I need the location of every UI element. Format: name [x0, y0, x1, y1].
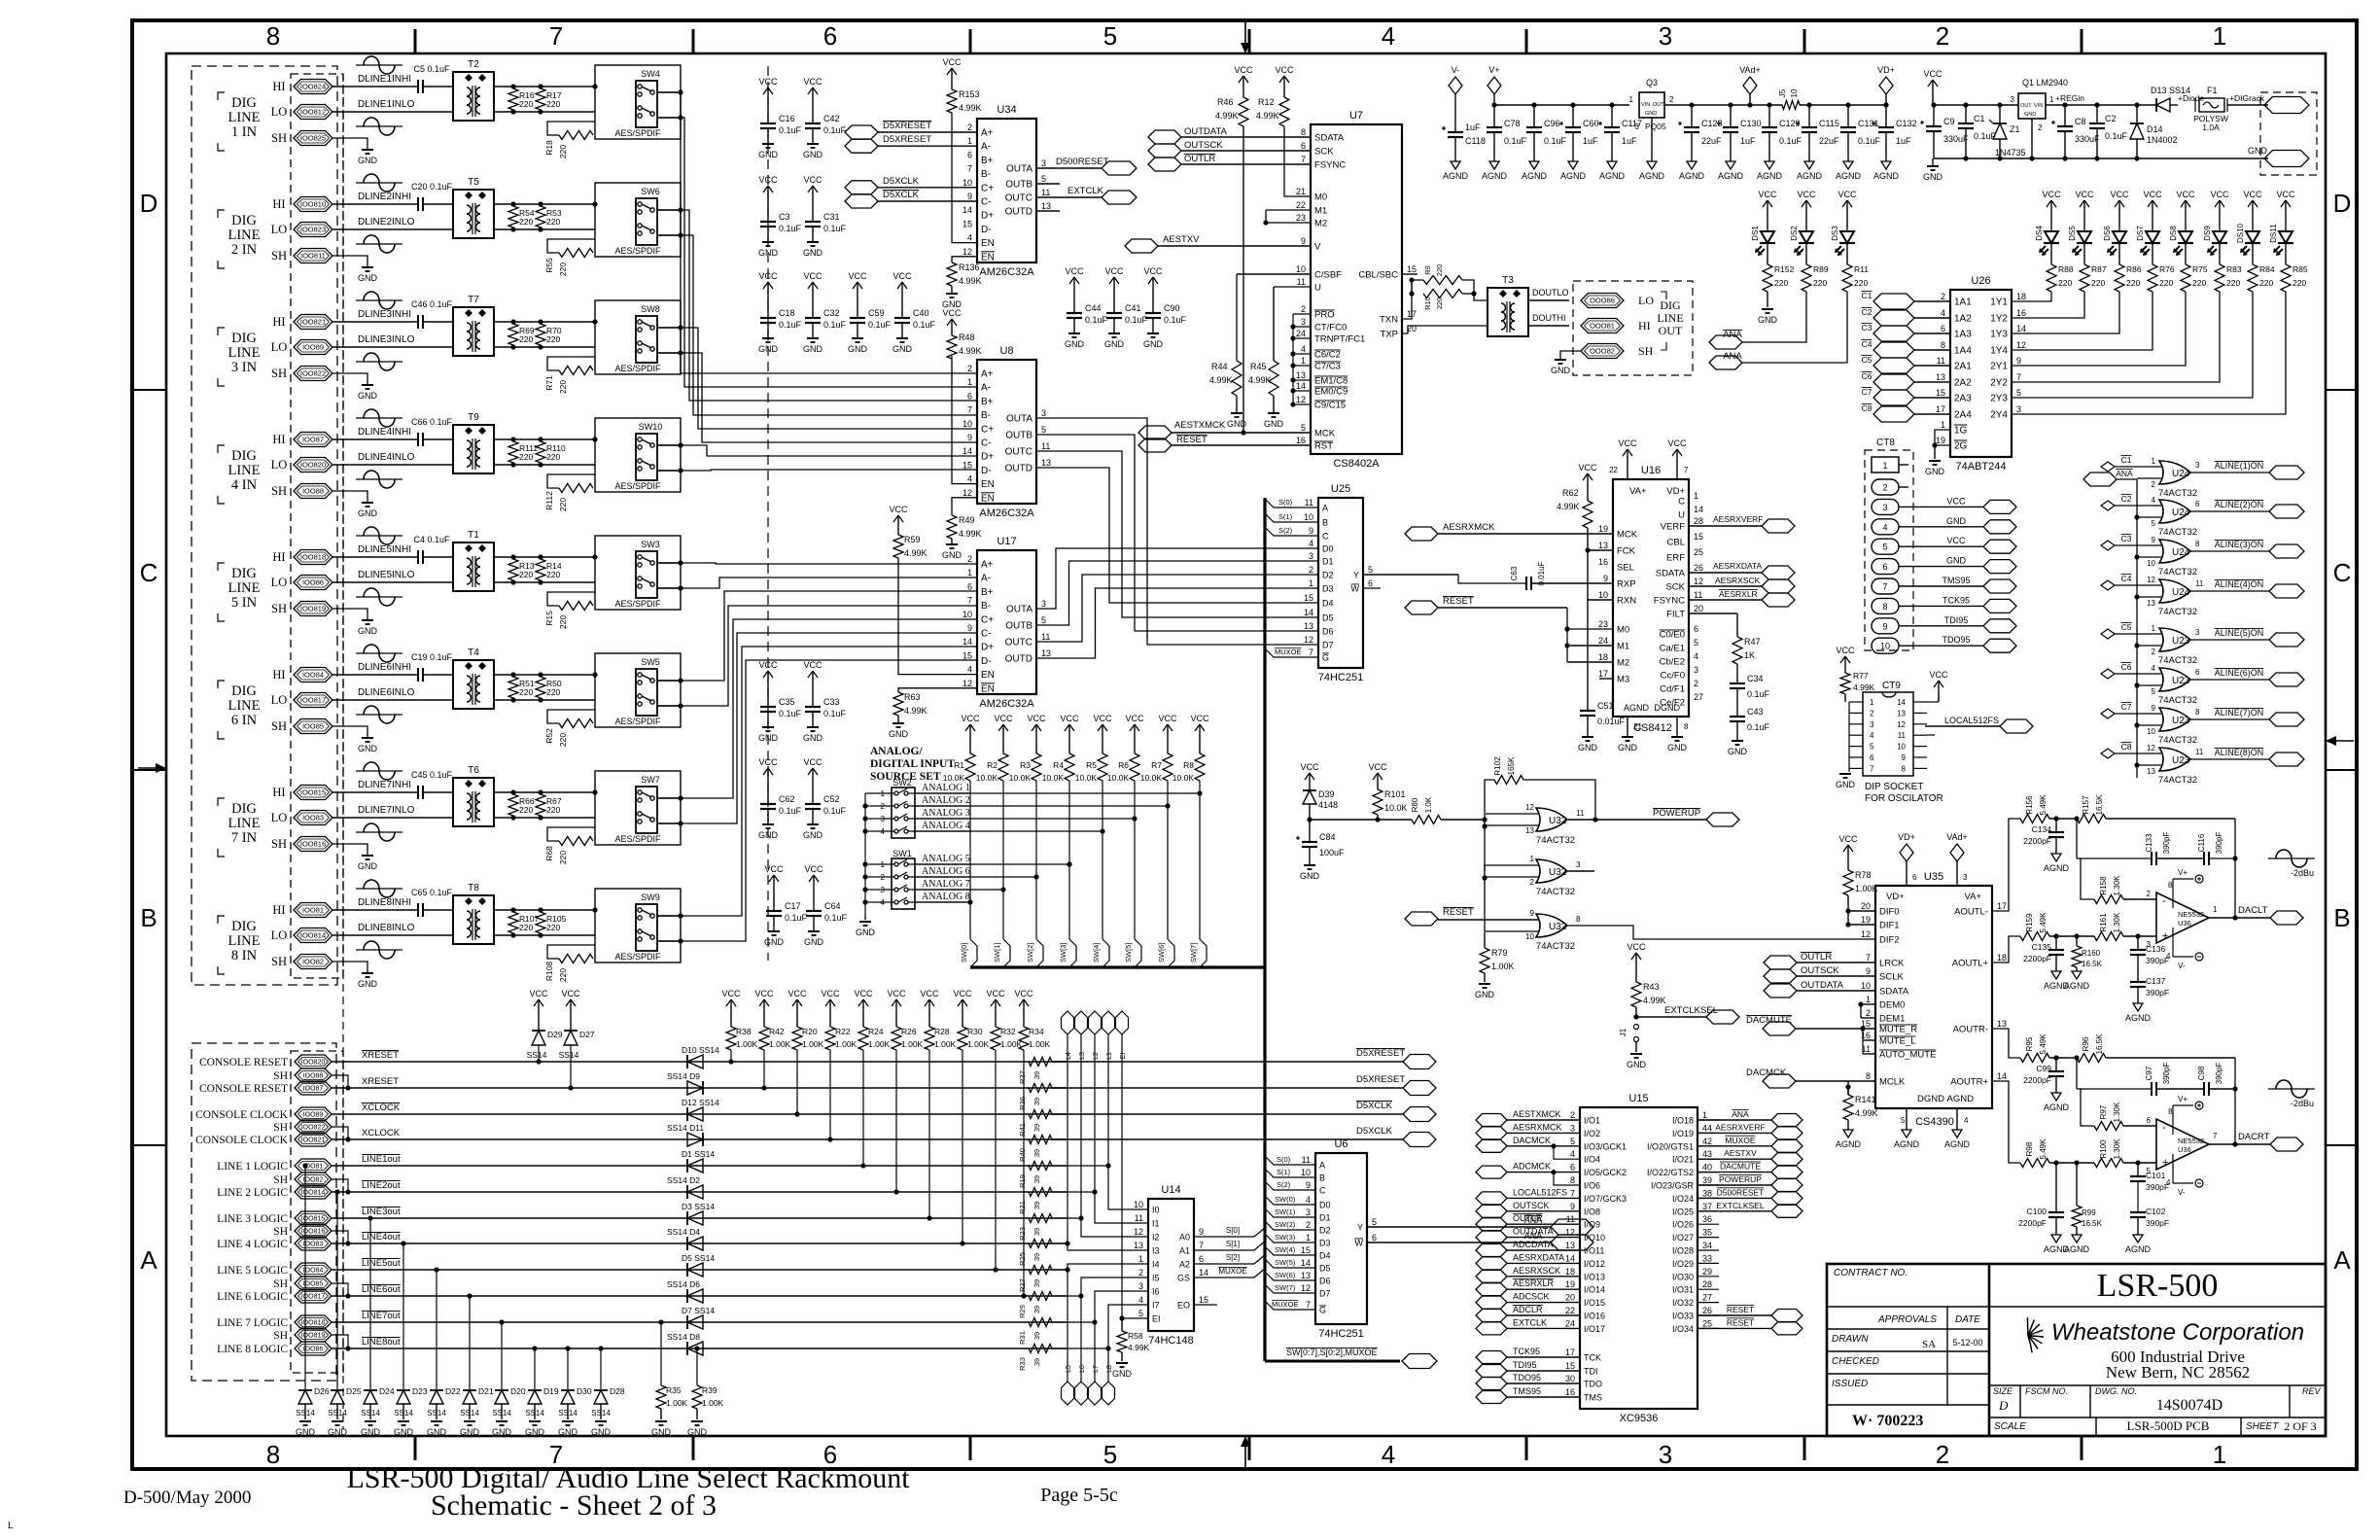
svg-text:VCC: VCC	[821, 989, 840, 998]
capacitor C43 0.1uF	[1736, 688, 1738, 717]
svg-text:2Y4: 2Y4	[1990, 410, 2008, 421]
svg-text:2: 2	[1694, 679, 1698, 688]
svg-text:VCC: VCC	[764, 864, 784, 874]
svg-text:0.1uF: 0.1uF	[779, 709, 802, 718]
svg-text:VCC: VCC	[1027, 714, 1046, 723]
op-amp V- supply	[2172, 927, 2174, 957]
svg-text:VCC: VCC	[1104, 266, 1124, 276]
svg-text:1: 1	[2049, 95, 2054, 104]
svg-text:I/O24: I/O24	[1672, 1194, 1694, 1204]
resistor R141 4.99K	[1847, 1087, 1849, 1095]
svg-text:10.0K: 10.0K	[1042, 773, 1065, 783]
svg-text:DLINE6INLO: DLINE6INLO	[358, 687, 415, 698]
input tag C4	[2101, 580, 2115, 590]
svg-text:R35: R35	[666, 1385, 682, 1395]
svg-text:3: 3	[1309, 551, 1313, 561]
wire transformer to switch SW7	[494, 791, 595, 793]
svg-text:AGND: AGND	[1624, 703, 1650, 713]
svg-text:4: 4	[967, 665, 972, 675]
svg-text:39: 39	[1032, 1175, 1041, 1183]
svg-text:TDI95: TDI95	[1513, 1360, 1537, 1370]
sine symbol	[356, 64, 402, 66]
svg-text:1: 1	[2213, 905, 2218, 914]
grid row ticks	[132, 389, 166, 391]
resistor R105 220	[536, 912, 545, 933]
svg-text:74ACT32: 74ACT32	[2158, 607, 2197, 617]
svg-text:FOR OSCILATOR: FOR OSCILATOR	[1865, 793, 1943, 804]
connector tag IOO88 (SH)	[294, 484, 332, 499]
svg-text:1uF: 1uF	[1583, 136, 1598, 146]
svg-text:OUT: OUT	[1653, 102, 1664, 108]
wire transformer to switch SW10	[494, 438, 595, 440]
wire SH to ground	[332, 844, 367, 856]
svg-text:390pF: 390pF	[2162, 1063, 2171, 1085]
svg-text:V-: V-	[2178, 962, 2186, 970]
svg-text:C64: C64	[824, 901, 841, 911]
svg-text:DIF0: DIF0	[1879, 907, 1900, 918]
svg-text:8: 8	[1941, 340, 1945, 350]
svg-text:TMS95: TMS95	[1513, 1386, 1541, 1396]
svg-text:C98: C98	[2197, 1066, 2206, 1080]
LED DS11	[2285, 200, 2287, 214]
svg-text:LINE: LINE	[227, 580, 260, 596]
svg-text:4.99K: 4.99K	[1128, 1343, 1150, 1352]
input tag C8	[2101, 749, 2115, 758]
resistor R101 10.0K	[1377, 773, 1379, 787]
svg-text:17: 17	[1997, 901, 2007, 911]
wire R to switch	[547, 827, 595, 841]
svg-text:VCC: VCC	[1836, 646, 1855, 655]
svg-text:HI: HI	[272, 550, 285, 564]
svg-text:AGND: AGND	[1836, 171, 1862, 181]
CT9 right pin wires	[1927, 701, 1939, 703]
resistor R111 220	[508, 441, 518, 463]
svg-text:VCC: VCC	[1275, 65, 1294, 75]
svg-text:VCC: VCC	[1093, 714, 1112, 723]
svg-text:8: 8	[2168, 1107, 2173, 1116]
svg-text:ALINE(3)ON: ALINE(3)ON	[2215, 540, 2264, 549]
svg-text:L: L	[8, 1521, 14, 1531]
OR gate U23 74ACT32	[2159, 668, 2190, 691]
svg-text:SW[2]: SW[2]	[1026, 943, 1034, 962]
wire R59 to U17 EN	[898, 558, 977, 675]
svg-text:M1: M1	[1314, 206, 1327, 217]
svg-text:0.1uF: 0.1uF	[824, 913, 848, 923]
svg-text:R71: R71	[544, 375, 554, 391]
svg-text:1.00K: 1.00K	[769, 1039, 791, 1049]
ground for DIG LINE OUT shield	[1560, 351, 1581, 360]
svg-text:74ACT32: 74ACT32	[2158, 735, 2197, 746]
svg-text:VCC: VCC	[1618, 438, 1637, 448]
svg-text:T7: T7	[468, 295, 479, 305]
svg-text:IOO83: IOO83	[302, 814, 324, 822]
svg-text:IOO89: IOO89	[303, 1112, 324, 1119]
output tag ALINE(1)ON	[2190, 472, 2270, 473]
svg-text:LRCK: LRCK	[1879, 959, 1905, 969]
svg-text:New Bern, NC 28562: New Bern, NC 28562	[2106, 1363, 2250, 1382]
svg-text:LINE 5 LOGIC: LINE 5 LOGIC	[217, 1265, 288, 1277]
svg-text:74ACT32: 74ACT32	[2158, 695, 2197, 706]
svg-text:AOUTL-: AOUTL-	[1954, 907, 1988, 918]
connector tag IOO87 (HI)	[294, 433, 332, 447]
resistor R48 4.99K for U8	[951, 319, 953, 332]
svg-text:GND: GND	[1143, 339, 1164, 349]
resistor R152 220	[1767, 247, 1768, 264]
svg-text:A-: A-	[981, 142, 991, 153]
svg-text:C66 0.1uF: C66 0.1uF	[411, 417, 453, 427]
svg-text:R36: R36	[1018, 1097, 1027, 1110]
svg-text:220: 220	[2226, 278, 2240, 288]
resistor R108 220	[559, 955, 593, 963]
svg-text:R59: R59	[904, 535, 921, 544]
svg-text:DEM1: DEM1	[1879, 1014, 1905, 1025]
svg-text:SW[0]: SW[0]	[960, 943, 968, 962]
svg-text:S(0): S(0)	[1277, 1155, 1291, 1164]
svg-text:9: 9	[1902, 753, 1907, 762]
LED DS4	[2050, 200, 2052, 214]
svg-text:EN: EN	[981, 670, 995, 681]
capacitor C33 0.1uF with VCC and GND	[812, 671, 814, 684]
svg-text:R12: R12	[1258, 97, 1275, 107]
switch SW4 AES/SPDIF	[595, 65, 681, 139]
capacitor C135 2200pF	[2055, 936, 2057, 950]
svg-text:VCC: VCC	[2276, 190, 2295, 199]
output tag AESRXVERF	[1689, 525, 1762, 527]
svg-text:16.5K: 16.5K	[2095, 794, 2104, 816]
svg-text:-2dBu: -2dBu	[2291, 868, 2314, 878]
pull-up resistors R1-R8 10.0K	[969, 724, 971, 738]
svg-text:0.1uF: 0.1uF	[1858, 136, 1881, 146]
svg-text:13: 13	[1041, 458, 1051, 468]
CT8 pin 7	[1872, 578, 1899, 594]
svg-text:VCC: VCC	[1837, 190, 1857, 199]
svg-text:-: -	[2162, 895, 2166, 907]
svg-text:38: 38	[1702, 1188, 1712, 1198]
svg-text:C52: C52	[823, 794, 840, 804]
wire LO to transformer	[332, 699, 453, 701]
svg-text:S[0]: S[0]	[1226, 1226, 1240, 1235]
svg-text:74ACT32: 74ACT32	[2158, 567, 2197, 577]
svg-text:CONSOLE RESET: CONSOLE RESET	[199, 1083, 288, 1095]
svg-text:SW[3]: SW[3]	[1059, 943, 1067, 962]
svg-text:SW(7): SW(7)	[1275, 1283, 1296, 1292]
sine symbol -2dBu R	[2268, 1088, 2315, 1090]
svg-text:FSYNC: FSYNC	[1314, 160, 1346, 171]
svg-text:VCC: VCC	[2176, 190, 2195, 199]
svg-text:3: 3	[2147, 940, 2152, 949]
capacitor C17 0.1uF with VCC and GND	[773, 875, 775, 889]
svg-text:V-: V-	[2178, 1188, 2186, 1197]
svg-text:MUTE_R: MUTE_R	[1879, 1025, 1917, 1035]
svg-text:AGND: AGND	[1836, 1139, 1862, 1149]
svg-text:B-: B-	[981, 169, 991, 180]
svg-text:DACMCK: DACMCK	[1513, 1136, 1551, 1145]
capacitor C115 22uF	[1806, 102, 1811, 107]
svg-text:R100: R100	[2099, 1139, 2108, 1159]
svg-text:NE5532: NE5532	[2178, 910, 2204, 919]
svg-text:39: 39	[1032, 1253, 1041, 1261]
svg-text:9: 9	[1882, 621, 1887, 631]
svg-text:14: 14	[1296, 381, 1306, 391]
diode D8 SS14	[687, 1342, 703, 1355]
svg-text:0.1uF: 0.1uF	[1747, 722, 1770, 732]
svg-text:39: 39	[1032, 1202, 1041, 1209]
svg-text:L8: L8	[1106, 1365, 1113, 1373]
svg-text:LINE: LINE	[227, 463, 260, 478]
svg-text:LINE: LINE	[227, 933, 260, 949]
gate input 2 from ANA bus	[2137, 724, 2161, 726]
svg-text:TMS: TMS	[1584, 1393, 1602, 1403]
svg-text:8: 8	[2168, 881, 2173, 890]
svg-text:U24: U24	[2172, 507, 2190, 518]
svg-text:18: 18	[2016, 292, 2026, 301]
capacitor C78 0.1uF	[1493, 105, 1495, 127]
svg-text:R160: R160	[2082, 949, 2101, 958]
svg-text:12: 12	[1694, 577, 1703, 586]
svg-text:1: 1	[1941, 420, 1945, 430]
resistor R52 220	[559, 719, 593, 728]
svg-text:C97: C97	[2145, 1066, 2153, 1080]
capacitor C133 390pF	[2151, 852, 2152, 865]
svg-text:39: 39	[1032, 1228, 1041, 1236]
svg-text:AOUTR-: AOUTR-	[1953, 1025, 1988, 1035]
svg-text:SH: SH	[271, 955, 287, 968]
svg-text:OUTD: OUTD	[1005, 207, 1032, 218]
svg-text:3: 3	[1576, 860, 1581, 869]
svg-text:VCC: VCC	[1158, 714, 1177, 723]
svg-text:D5XCLK: D5XCLK	[1356, 1101, 1393, 1111]
wire R to switch	[547, 710, 595, 723]
svg-text:HI: HI	[272, 433, 285, 446]
svg-text:220: 220	[558, 262, 568, 276]
switch output wires	[657, 915, 681, 917]
S bus stubs into U6	[1265, 1156, 1315, 1165]
svg-text:RXP: RXP	[1617, 579, 1636, 590]
svg-text:1: 1	[2213, 1440, 2226, 1469]
svg-text:GND: GND	[1728, 747, 1748, 756]
svg-text:HI: HI	[272, 315, 285, 329]
gate input 2 from ANA bus	[2137, 556, 2161, 558]
svg-text:VCC: VCC	[986, 989, 1005, 998]
resistor R37 39	[1029, 1058, 1052, 1067]
svg-text:R156: R156	[2025, 795, 2034, 815]
svg-text:DOUTHI: DOUTHI	[1532, 313, 1566, 323]
U25 W stub	[1363, 587, 1381, 589]
svg-text:U23: U23	[2172, 676, 2190, 686]
svg-text:I/O30: I/O30	[1672, 1272, 1694, 1281]
svg-text:R84: R84	[2259, 264, 2275, 274]
capacitor C100 2200pF	[2055, 1163, 2057, 1212]
svg-text:VCC: VCC	[1929, 670, 1948, 680]
svg-text:R22: R22	[835, 1027, 851, 1036]
svg-text:I/O8: I/O8	[1584, 1207, 1600, 1216]
OR gate U32b 74ACT32	[1484, 826, 1486, 871]
svg-text:R68: R68	[544, 846, 554, 861]
svg-text:15: 15	[1301, 1245, 1311, 1255]
svg-text:74ACT32: 74ACT32	[2158, 775, 2197, 786]
svg-text:3: 3	[2195, 461, 2200, 470]
svg-text:0.1uF: 0.1uF	[1544, 136, 1567, 146]
resistor R110 220	[536, 441, 545, 463]
svg-text:D14: D14	[2147, 124, 2163, 134]
svg-text:R32: R32	[1000, 1027, 1016, 1036]
SW bus thick line	[970, 965, 1265, 968]
svg-text:7: 7	[1301, 155, 1306, 164]
svg-text:CONSOLE RESET: CONSOLE RESET	[199, 1057, 288, 1068]
svg-text:C133: C133	[2145, 833, 2153, 853]
gate input 2 from ANA bus	[2137, 477, 2161, 479]
svg-text:16.5K: 16.5K	[2095, 1033, 2104, 1055]
resistor R84 220	[2252, 247, 2254, 264]
feedback vertical	[2234, 819, 2236, 918]
connector tag IOO819 (SH)	[294, 602, 332, 616]
svg-text:22uF: 22uF	[1701, 136, 1722, 146]
svg-text:C+: C+	[981, 183, 994, 193]
sine symbol	[356, 478, 402, 480]
svg-text:1.30K: 1.30K	[2113, 912, 2121, 933]
svg-text:390pF: 390pF	[2146, 988, 2169, 997]
connector tag IOO89 (LO)	[294, 340, 332, 355]
svg-text:5: 5	[2147, 1167, 2152, 1175]
ground DS1	[1767, 292, 1768, 307]
svg-text:VA+: VA+	[1964, 892, 1981, 902]
svg-text:EN: EN	[981, 493, 995, 504]
resistor R158 1.30K	[2094, 895, 2123, 904]
svg-text:EN: EN	[981, 683, 995, 694]
op-amp U36 NE5532	[2156, 892, 2209, 943]
wire SH to ground	[332, 962, 367, 973]
svg-text:CONSOLE CLOCK: CONSOLE CLOCK	[195, 1109, 289, 1121]
svg-text:D2: D2	[1322, 571, 1334, 580]
svg-text:R6: R6	[1118, 760, 1129, 770]
svg-text:13: 13	[1301, 1271, 1311, 1280]
svg-text:CBL: CBL	[1667, 538, 1685, 548]
svg-text:I/O7/GCK3: I/O7/GCK3	[1584, 1194, 1627, 1204]
svg-text:3: 3	[1041, 158, 1046, 168]
input tag AESTXV	[1125, 239, 1158, 253]
svg-text:4: 4	[2166, 1178, 2171, 1187]
U14 EO stub	[1194, 1304, 1217, 1306]
svg-text:10: 10	[2147, 559, 2155, 568]
svg-text:S(2): S(2)	[1277, 1180, 1291, 1189]
svg-text:7: 7	[1870, 764, 1874, 773]
svg-text:16: 16	[1296, 436, 1306, 445]
svg-text:OUTB: OUTB	[1005, 180, 1032, 191]
resistor R83 220	[2219, 247, 2221, 264]
svg-text:SEL: SEL	[1617, 563, 1634, 574]
wire SH to ground	[332, 726, 367, 738]
transformer T2	[453, 72, 494, 121]
svg-text:19: 19	[1861, 915, 1871, 925]
vertical tags above (to U14 upper inputs)	[1102, 1011, 1115, 1034]
svg-text:IOO88: IOO88	[303, 1073, 324, 1080]
CT8 wire pin3 VCC	[1899, 506, 1983, 507]
connector tag IOO814 (LO)	[294, 928, 332, 943]
svg-text:I/O19: I/O19	[1672, 1129, 1694, 1138]
svg-text:1.00K: 1.00K	[1029, 1039, 1051, 1049]
svg-text:Wheatstone Corporation: Wheatstone Corporation	[2051, 1319, 2304, 1346]
wire HI to cap C4	[332, 556, 418, 558]
resistor R12 4.99K	[1283, 76, 1285, 89]
svg-text:LINE: LINE	[227, 110, 260, 125]
svg-text:10: 10	[1880, 642, 1890, 651]
svg-text:15: 15	[962, 650, 972, 660]
switch output wires	[657, 562, 681, 564]
resistor R80 1.0K	[1412, 816, 1441, 824]
svg-text:Z1: Z1	[2010, 124, 2020, 134]
svg-text:SH: SH	[273, 1070, 288, 1082]
IC U14 74HC148	[1148, 1199, 1194, 1331]
svg-text:IOO820: IOO820	[301, 1060, 326, 1067]
svg-text:DLINE8INLO: DLINE8INLO	[358, 923, 415, 933]
resistor R85 220	[2285, 247, 2287, 264]
svg-text:D3 SS14: D3 SS14	[682, 1202, 715, 1211]
resistor R112 220	[559, 484, 593, 493]
svg-text:DLINE6INHI: DLINE6INHI	[358, 662, 411, 673]
svg-text:GND: GND	[358, 979, 378, 989]
svg-text:T9: T9	[468, 412, 479, 423]
svg-text:4.99K: 4.99K	[1643, 996, 1666, 1005]
svg-text:15: 15	[1304, 593, 1313, 603]
svg-text:R52: R52	[544, 728, 554, 744]
svg-text:C8: C8	[1862, 403, 1872, 413]
svg-text:IOO86: IOO86	[302, 578, 324, 587]
CT8 pin 5	[1872, 539, 1899, 554]
svg-text:U16: U16	[1641, 465, 1661, 476]
svg-text:ALINE(4)ON: ALINE(4)ON	[2215, 579, 2264, 589]
svg-text:SW7: SW7	[641, 775, 660, 785]
diode D10 SS14	[687, 1055, 703, 1068]
svg-text:V+: V+	[1488, 65, 1499, 75]
svg-text:D10 SS14: D10 SS14	[682, 1045, 719, 1055]
svg-text:W: W	[1351, 584, 1360, 594]
svg-text:6: 6	[823, 21, 837, 51]
svg-text:DACLT: DACLT	[2238, 905, 2268, 916]
svg-text:GND: GND	[1925, 467, 1945, 476]
svg-text:7: 7	[967, 164, 972, 174]
wire HI to cap C45	[332, 791, 418, 793]
svg-text:CT9: CT9	[1882, 681, 1901, 691]
svg-text:Ca/E1: Ca/E1	[1660, 644, 1685, 654]
svg-text:SH: SH	[273, 1226, 288, 1238]
svg-text:R2: R2	[987, 760, 997, 770]
svg-text:GND: GND	[1946, 556, 1967, 566]
svg-text:M0: M0	[1314, 192, 1327, 203]
capacitor C64 0.1uF with VCC and GND	[813, 875, 815, 889]
svg-text:LSR-500: LSR-500	[2097, 1268, 2219, 1304]
sine symbol	[356, 182, 402, 184]
svg-text:ALINE(8)ON: ALINE(8)ON	[2215, 748, 2264, 757]
svg-text:ANALOG 6: ANALOG 6	[922, 866, 970, 877]
resistor R88 220	[2050, 247, 2052, 264]
svg-text:4: 4	[1306, 1195, 1311, 1205]
svg-text:D-500/May 2000: D-500/May 2000	[123, 1487, 251, 1508]
wire transformer to switch SW4	[494, 86, 595, 87]
svg-text:I2: I2	[1152, 1233, 1160, 1242]
svg-text:24: 24	[1565, 1318, 1575, 1328]
resistor R23 39	[1029, 1214, 1052, 1223]
svg-text:T6: T6	[468, 765, 479, 776]
svg-text:R95: R95	[2025, 1036, 2034, 1051]
svg-text:15: 15	[1199, 1295, 1208, 1305]
connector tag +DIGrack	[2264, 97, 2309, 114]
svg-text:+REGin: +REGin	[2055, 93, 2084, 103]
svg-text:DIP SOCKET: DIP SOCKET	[1865, 782, 1923, 792]
svg-text:0.1uF: 0.1uF	[1747, 689, 1770, 699]
svg-text:C1: C1	[1862, 291, 1872, 300]
svg-text:EI: EI	[1120, 1053, 1127, 1060]
svg-text:LO: LO	[271, 928, 288, 942]
